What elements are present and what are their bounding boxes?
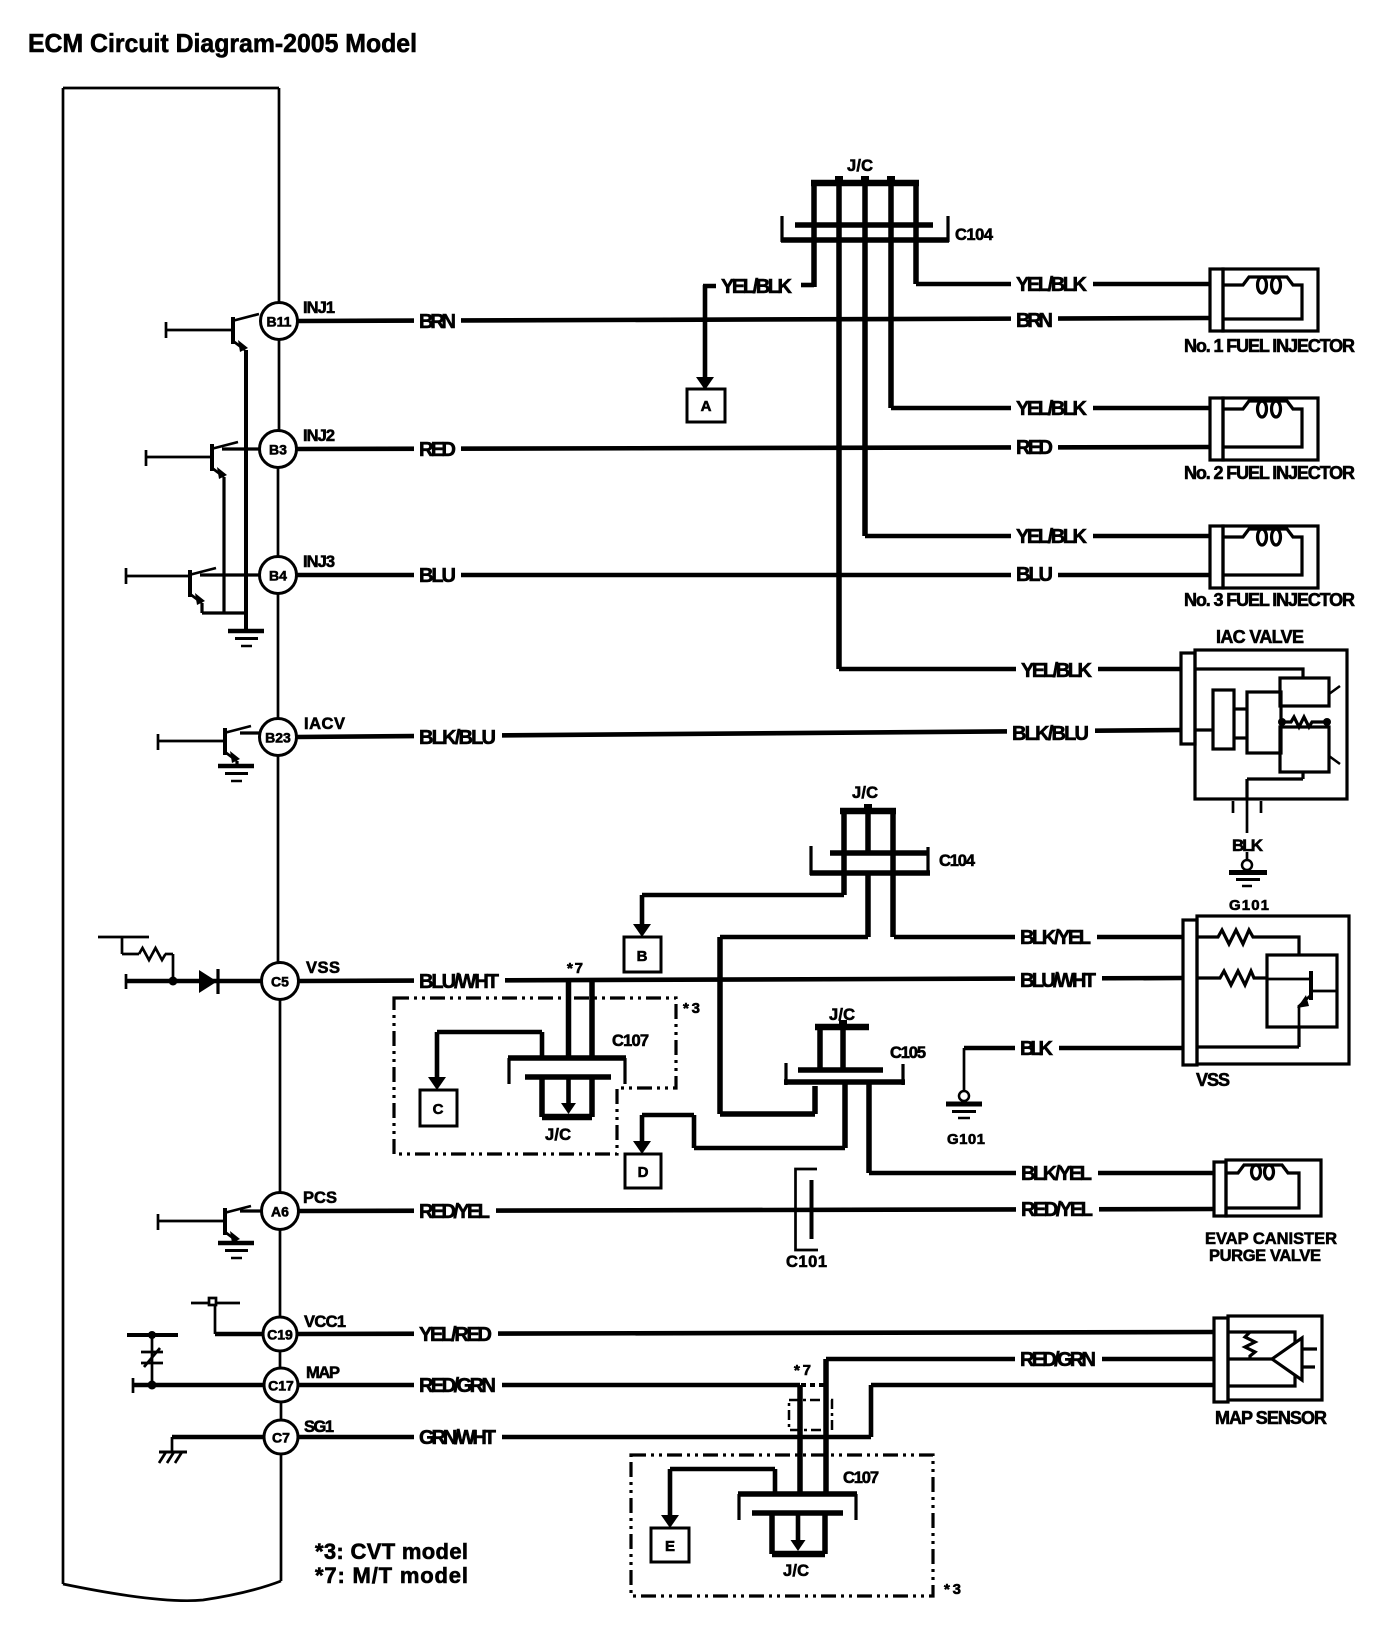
svg-text:YEL/BLK: YEL/BLK <box>1021 660 1093 682</box>
svg-text:*7: *7 <box>567 960 583 977</box>
svg-text:RED/GRN: RED/GRN <box>419 1375 496 1397</box>
svg-text:BLK/YEL: BLK/YEL <box>1020 927 1091 949</box>
svg-text:B11: B11 <box>267 314 292 330</box>
svg-text:INJ3: INJ3 <box>303 553 335 571</box>
svg-text:*7: *7 <box>794 1362 811 1379</box>
svg-text:RED/YEL: RED/YEL <box>1021 1199 1093 1221</box>
svg-text:RED/GRN: RED/GRN <box>1020 1349 1096 1371</box>
svg-text:BLK/BLU: BLK/BLU <box>419 727 496 749</box>
svg-text:BLK/YEL: BLK/YEL <box>1021 1163 1092 1185</box>
svg-text:ECM Circuit Diagram-2005 Model: ECM Circuit Diagram-2005 Model <box>28 28 417 58</box>
svg-text:C7: C7 <box>272 1430 290 1446</box>
svg-text:RED: RED <box>1016 437 1053 459</box>
svg-text:J/C: J/C <box>829 1006 855 1024</box>
svg-text:C101: C101 <box>786 1253 827 1271</box>
svg-text:No. 2 FUEL INJECTOR: No. 2 FUEL INJECTOR <box>1184 463 1355 483</box>
svg-text:C104: C104 <box>939 852 976 870</box>
svg-text:B4: B4 <box>269 568 287 584</box>
svg-text:RED: RED <box>419 439 456 461</box>
svg-text:PURGE VALVE: PURGE VALVE <box>1209 1247 1321 1265</box>
svg-text:J/C: J/C <box>545 1126 571 1144</box>
svg-text:G101: G101 <box>947 1131 985 1148</box>
svg-text:E: E <box>665 1538 675 1555</box>
svg-text:C107: C107 <box>843 1469 879 1487</box>
svg-text:BRN: BRN <box>1016 310 1053 332</box>
svg-text:BLU/WHT: BLU/WHT <box>1020 970 1096 992</box>
svg-text:J/C: J/C <box>783 1562 809 1580</box>
svg-text:VCC1: VCC1 <box>304 1313 346 1331</box>
svg-text:D: D <box>638 1164 649 1181</box>
svg-text:C104: C104 <box>955 226 994 244</box>
svg-text:BLU: BLU <box>419 565 456 587</box>
svg-text:G101: G101 <box>1229 897 1269 914</box>
svg-text:YEL/BLK: YEL/BLK <box>1016 526 1088 548</box>
svg-text:BLU: BLU <box>1016 564 1053 586</box>
svg-text:C19: C19 <box>267 1327 293 1343</box>
svg-text:B3: B3 <box>269 442 287 458</box>
svg-text:IACV: IACV <box>304 715 345 733</box>
svg-text:B: B <box>637 948 648 965</box>
svg-text:*3: *3 <box>683 1000 700 1017</box>
svg-text:A: A <box>701 398 712 415</box>
svg-text:*3: *3 <box>944 1581 961 1598</box>
svg-text:C5: C5 <box>271 974 289 990</box>
svg-text:VSS: VSS <box>306 959 340 977</box>
svg-text:YEL/BLK: YEL/BLK <box>1016 398 1088 420</box>
svg-text:B23: B23 <box>265 730 291 746</box>
svg-text:BRN: BRN <box>419 311 456 333</box>
svg-text:SG1: SG1 <box>304 1418 334 1436</box>
svg-text:*7: M/T model: *7: M/T model <box>315 1563 468 1588</box>
svg-text:EVAP CANISTER: EVAP CANISTER <box>1205 1230 1337 1248</box>
svg-text:J/C: J/C <box>847 157 873 175</box>
svg-text:No. 3 FUEL INJECTOR: No. 3 FUEL INJECTOR <box>1184 590 1355 610</box>
svg-text:INJ2: INJ2 <box>303 427 335 445</box>
svg-text:YEL/RED: YEL/RED <box>419 1324 492 1346</box>
svg-text:BLU/WHT: BLU/WHT <box>419 971 499 993</box>
svg-text:C17: C17 <box>268 1378 294 1394</box>
svg-text:*3: CVT model: *3: CVT model <box>315 1539 468 1564</box>
svg-text:YEL/BLK: YEL/BLK <box>1016 274 1088 296</box>
svg-text:J/C: J/C <box>852 784 878 802</box>
svg-text:INJ1: INJ1 <box>303 299 335 317</box>
svg-text:BLK/BLU: BLK/BLU <box>1012 723 1089 745</box>
svg-text:A6: A6 <box>271 1204 289 1220</box>
svg-text:YEL/BLK: YEL/BLK <box>721 276 793 298</box>
svg-text:BLK: BLK <box>1020 1038 1054 1060</box>
svg-text:RED/YEL: RED/YEL <box>419 1201 490 1223</box>
svg-text:BLK: BLK <box>1232 836 1264 855</box>
svg-text:GRN/WHT: GRN/WHT <box>419 1427 496 1449</box>
svg-text:PCS: PCS <box>303 1189 337 1207</box>
svg-text:MAP SENSOR: MAP SENSOR <box>1215 1408 1327 1428</box>
svg-text:IAC VALVE: IAC VALVE <box>1216 627 1304 647</box>
svg-text:VSS: VSS <box>1196 1070 1230 1090</box>
svg-text:C105: C105 <box>890 1044 926 1062</box>
svg-text:No. 1 FUEL INJECTOR: No. 1 FUEL INJECTOR <box>1184 336 1355 356</box>
svg-text:C107: C107 <box>612 1032 649 1050</box>
svg-text:MAP: MAP <box>306 1364 340 1382</box>
svg-text:C: C <box>433 1101 444 1118</box>
